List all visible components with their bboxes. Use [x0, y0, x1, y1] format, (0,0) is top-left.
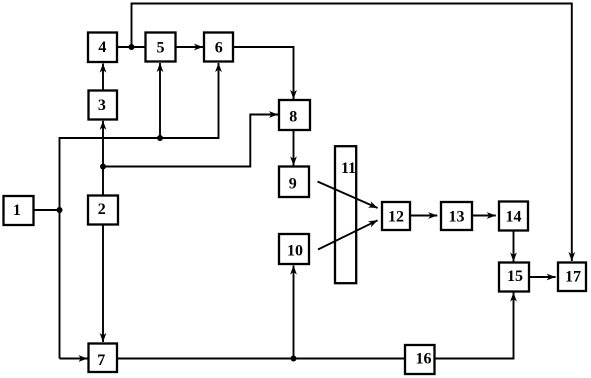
svg-text:4: 4: [98, 39, 106, 56]
svg-text:15: 15: [507, 268, 523, 285]
svg-text:14: 14: [506, 209, 522, 226]
svg-text:1: 1: [13, 202, 21, 219]
svg-text:8: 8: [289, 108, 297, 125]
svg-text:2: 2: [98, 201, 106, 218]
svg-text:13: 13: [449, 209, 465, 226]
svg-text:9: 9: [289, 176, 297, 193]
svg-text:3: 3: [98, 97, 106, 114]
svg-text:7: 7: [97, 352, 105, 369]
svg-text:17: 17: [565, 269, 581, 286]
svg-text:11: 11: [341, 160, 356, 177]
svg-text:6: 6: [215, 39, 223, 56]
svg-text:12: 12: [388, 209, 404, 226]
svg-text:10: 10: [287, 242, 303, 259]
svg-text:16: 16: [416, 350, 432, 367]
svg-text:5: 5: [157, 39, 165, 56]
